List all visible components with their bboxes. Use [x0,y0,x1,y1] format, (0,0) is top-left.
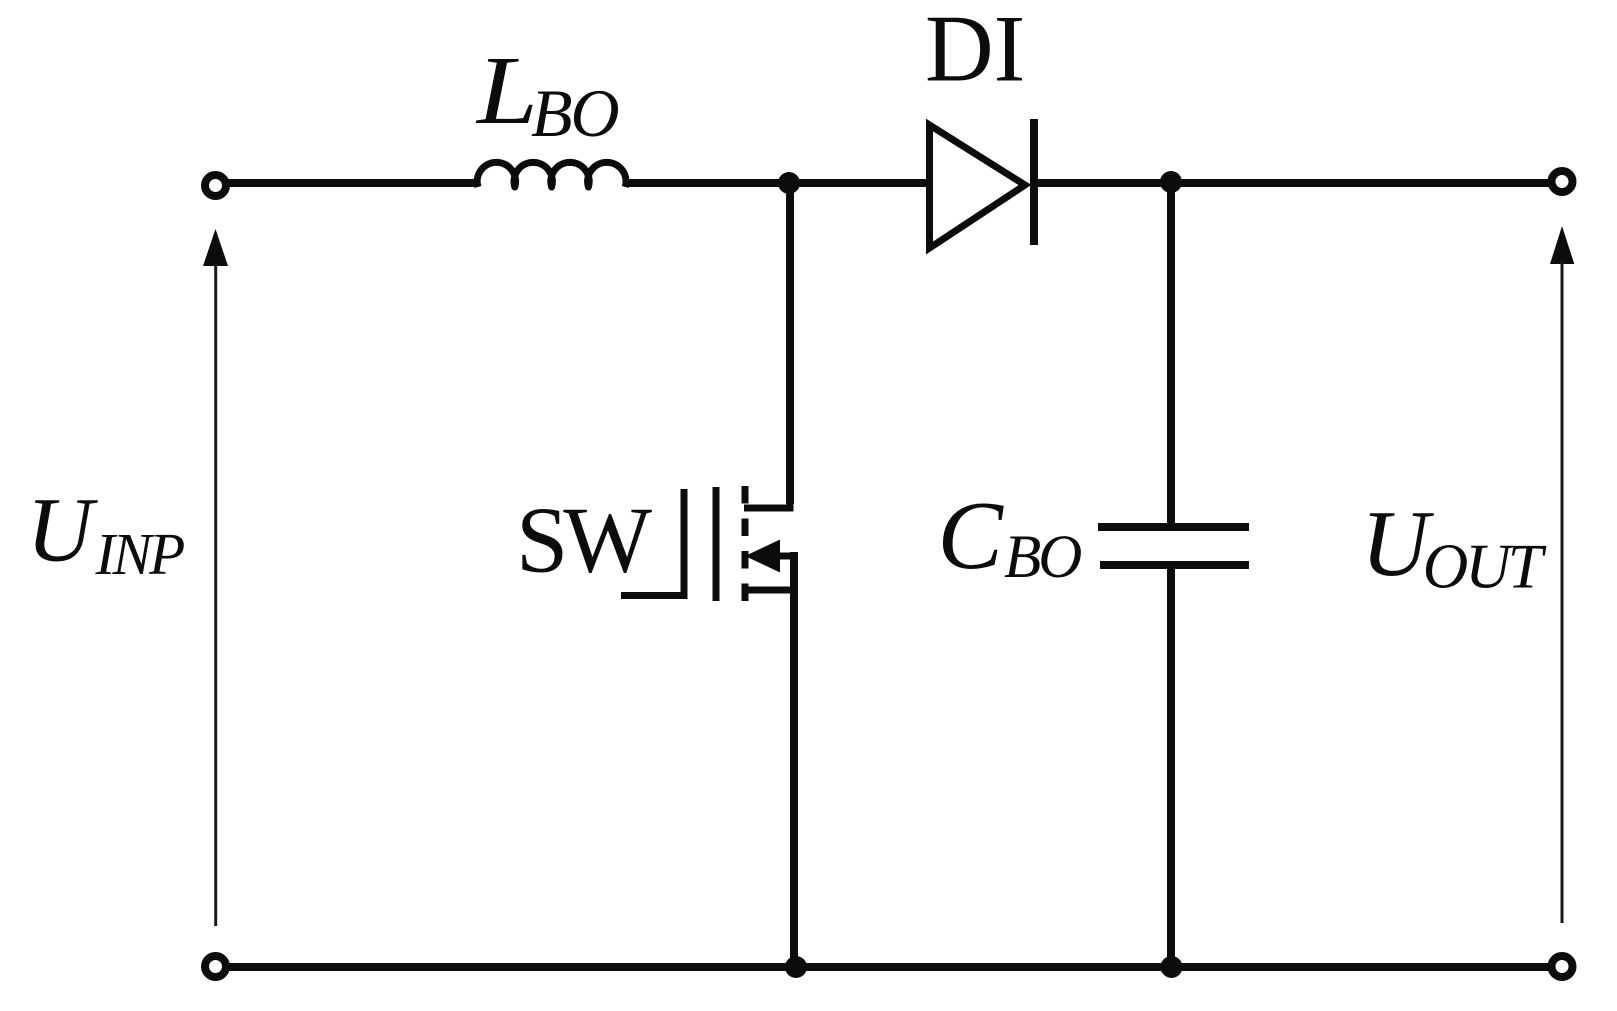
svg-text:C: C [938,482,1005,590]
svg-text:OUT: OUT [1423,532,1547,602]
svg-text:L: L [475,37,538,145]
svg-text:U: U [27,479,99,581]
svg-text:INP: INP [95,521,185,587]
svg-text:BO: BO [531,75,619,151]
svg-text:DI: DI [925,0,1025,102]
svg-text:SW: SW [516,489,652,593]
svg-text:BO: BO [1004,524,1081,591]
